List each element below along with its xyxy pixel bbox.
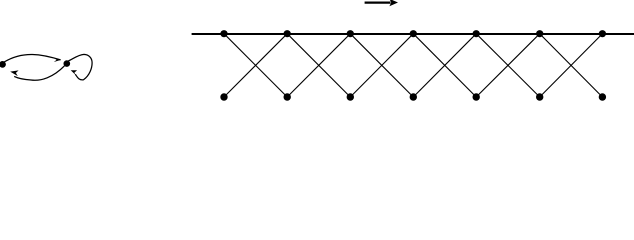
- edge A to B (upper curved arrow): [4, 54, 61, 62]
- node T6: [536, 30, 543, 37]
- wire: top 5 to bottom 4: [413, 34, 476, 97]
- node B5: [473, 93, 480, 100]
- edge B to A (lower curved arrow): [10, 66, 64, 80]
- node T1: [220, 30, 227, 37]
- wire: top 3 to bottom 2: [287, 34, 350, 97]
- horizontal base line of covering graph: [192, 33, 634, 35]
- node T3: [347, 30, 354, 37]
- wire: top 5 to bottom 6: [476, 34, 540, 97]
- wire: top 6 to bottom 5: [476, 34, 540, 97]
- wire: top 6 to bottom 7: [540, 34, 603, 97]
- wire: top 3 to bottom 4: [350, 34, 413, 97]
- wire: top 4 to bottom 5: [413, 34, 476, 97]
- node T2: [284, 30, 291, 37]
- node T4: [410, 30, 417, 37]
- node A (left state of two-state automaton): [0, 61, 6, 68]
- wire: top 2 to bottom 1: [224, 34, 287, 97]
- wire: top 1 to bottom 2: [224, 34, 287, 97]
- node B4: [410, 93, 417, 100]
- node T7: [599, 30, 606, 37]
- wire: top 2 to bottom 3: [287, 34, 350, 97]
- node B7: [599, 93, 606, 100]
- self-loop on node B: [68, 54, 92, 79]
- node B1: [220, 93, 227, 100]
- node B3: [347, 93, 354, 100]
- node T5: [473, 30, 480, 37]
- node B6: [536, 93, 543, 100]
- shift-direction arrow (top): [365, 0, 398, 6]
- node B (right state of two-state automaton): [64, 60, 71, 67]
- wire: top 4 to bottom 3: [350, 34, 413, 97]
- wire: top 7 to bottom 6: [540, 34, 603, 97]
- node B2: [284, 93, 291, 100]
